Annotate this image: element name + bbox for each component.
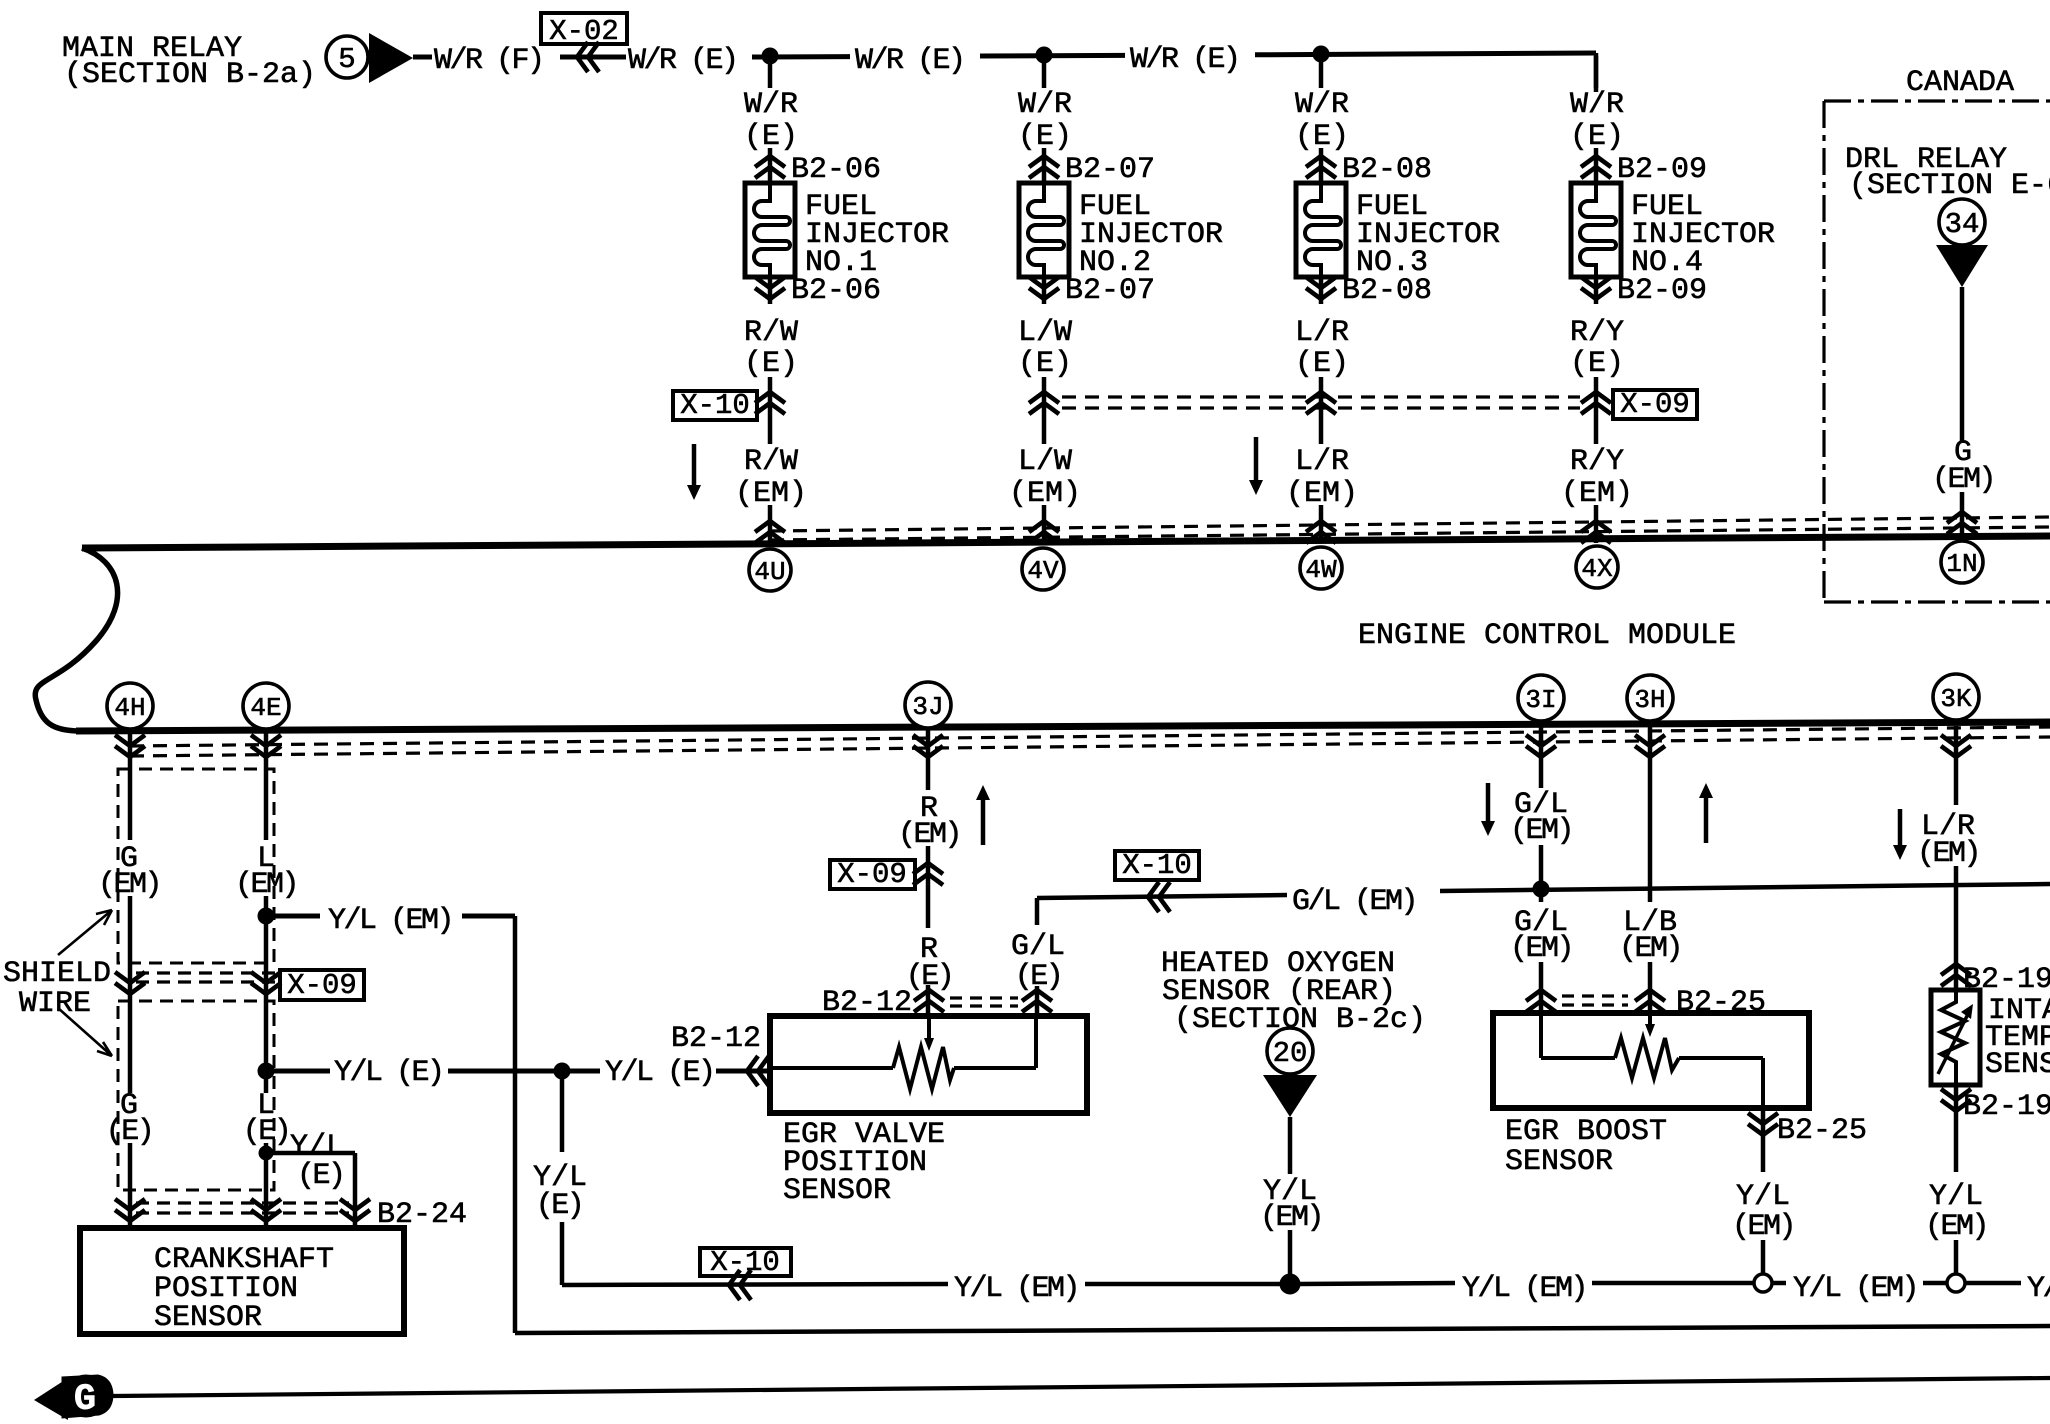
- wire label R/W (E): [744, 316, 798, 381]
- connector circle 34 (to DRL relay): [1939, 199, 1985, 245]
- svg-text:34: 34: [1945, 208, 1980, 241]
- wire Y/L (E) down to X-10: [560, 1071, 565, 1285]
- connector to ECM pin: [1306, 521, 1336, 543]
- svg-text:(EM): (EM): [1732, 1210, 1794, 1244]
- SHIELD WIRE label: [3, 957, 111, 1021]
- svg-text:20: 20: [1273, 1037, 1308, 1070]
- flow arrow down (3K): [1893, 809, 1907, 860]
- splice (EGR boost): [1754, 1274, 1772, 1292]
- svg-text:(EM): (EM): [1561, 477, 1633, 511]
- splice (IAT): [1947, 1274, 1965, 1292]
- svg-text:SENSOR: SENSOR: [1505, 1145, 1613, 1179]
- main relay feed arrow: [369, 33, 413, 83]
- wire label R (EM): [898, 792, 960, 852]
- wire Y/L (EM) from EGR boost: [1761, 1108, 1766, 1274]
- harness dashes B2-12 row: [950, 998, 1018, 1006]
- wire label L/B (EM): [1619, 906, 1681, 966]
- svg-text:L/R: L/R: [1295, 445, 1349, 479]
- svg-text:B2-25: B2-25: [1777, 1114, 1867, 1148]
- ECM pin 1N: [1941, 541, 1983, 583]
- svg-text:(EM): (EM): [1917, 837, 1979, 871]
- connector B2-19 (bottom): [1941, 1089, 2050, 1124]
- svg-text:Y/L: Y/L: [1929, 1180, 1983, 1214]
- svg-text:W/R (E): W/R (E): [855, 44, 964, 78]
- svg-text:(EM): (EM): [1510, 814, 1572, 848]
- svg-text:Y/L (EM): Y/L (EM): [328, 904, 452, 938]
- svg-text:(E): (E): [1570, 120, 1624, 154]
- svg-text:(SECTION E-6): (SECTION E-6): [1849, 169, 2050, 203]
- wire label Y/L (EM): [954, 1272, 1078, 1306]
- connector to ECM pin: [1581, 521, 1611, 543]
- svg-text:W/R: W/R: [1295, 88, 1349, 122]
- svg-text:X-10: X-10: [710, 1246, 780, 1279]
- CANADA boundary box (dash-dot): [1824, 101, 2050, 602]
- svg-text:WIRE: WIRE: [19, 987, 91, 1021]
- connector from ECM pin: [1635, 735, 1665, 757]
- svg-text:L/W: L/W: [1018, 316, 1072, 350]
- connector X row chevron: [755, 392, 785, 414]
- ENGINE CONTROL MODULE label: [1358, 619, 1736, 653]
- svg-text:R/W: R/W: [744, 445, 798, 479]
- wire label Y/L (EM): [1732, 1180, 1794, 1244]
- ECM pin 3J: [905, 682, 951, 728]
- svg-text:B2-19: B2-19: [1963, 1090, 2050, 1124]
- svg-text:CANADA: CANADA: [1906, 66, 2014, 100]
- svg-text:EGR BOOST: EGR BOOST: [1505, 1115, 1667, 1149]
- connector to ECM pin: [755, 521, 785, 543]
- wire label L/R (EM): [1286, 445, 1358, 511]
- wire Y/L (EM) branch: [266, 916, 515, 1333]
- CANADA label: [1906, 66, 2014, 100]
- svg-text:B2-06: B2-06: [791, 274, 881, 308]
- connector B2-07 (bottom): [1029, 274, 1155, 308]
- svg-text:L/R: L/R: [1295, 316, 1349, 350]
- wire G/L (EM) horizontal: [1037, 884, 2050, 898]
- inline connector X-09 (shield row): [280, 969, 364, 1002]
- wire L/W (EM): [1042, 505, 1047, 543]
- label fuel injector no.3: [1356, 190, 1500, 280]
- label EGR valve position sensor: [783, 1118, 945, 1208]
- junction Y/L (E) long branch: [258, 1063, 274, 1079]
- label fuel injector no.4: [1631, 190, 1775, 280]
- svg-text:SENSOR: SENSOR: [1985, 1048, 2050, 1082]
- wire label L/W (EM): [1009, 445, 1081, 511]
- wire label Y/L (EM): [1925, 1180, 1987, 1244]
- svg-text:(E): (E): [297, 1159, 344, 1193]
- inline connector X-10: [673, 389, 757, 422]
- svg-text:R/Y: R/Y: [1570, 316, 1624, 350]
- connector circle 5 (to main relay): [326, 36, 368, 78]
- ECM pin 3I: [1518, 675, 1564, 721]
- svg-text:B2-06: B2-06: [791, 153, 881, 187]
- EGR boost sensor: [1493, 1013, 1809, 1108]
- junction (injector no.2 branch): [1036, 47, 1052, 63]
- harness dashes X-09 row: [136, 973, 280, 982]
- harness dashes above ECM line: [770, 517, 2050, 540]
- svg-text:(EM): (EM): [1619, 932, 1681, 966]
- svg-text:4E: 4E: [250, 693, 281, 723]
- connector B2-25 (bottom): [1748, 1113, 1867, 1148]
- svg-text:4W: 4W: [1305, 555, 1337, 585]
- svg-text:3H: 3H: [1634, 685, 1665, 715]
- connector from ECM pin: [913, 735, 943, 757]
- svg-text:3J: 3J: [912, 692, 943, 722]
- ECM boundary bottom line: [76, 722, 2050, 731]
- flow arrow down (col 3): [1249, 437, 1263, 495]
- svg-text:(E): (E): [1295, 347, 1349, 381]
- connector from ECM pin: [1526, 735, 1556, 757]
- svg-text:R/Y: R/Y: [1570, 445, 1624, 479]
- connector from ECM pin: [115, 735, 145, 757]
- connector B2-24 chevron (L): [251, 1199, 281, 1221]
- wire L/R (EM) 3K column: [1954, 726, 1959, 990]
- svg-text:Y/L (EM): Y/L (EM): [1462, 1272, 1586, 1306]
- svg-text:G/L: G/L: [1011, 930, 1065, 964]
- junction G/L: [1533, 881, 1549, 897]
- junction Y/L (E) crank branch: [259, 1146, 273, 1160]
- wire label G (E): [106, 1089, 153, 1149]
- wire G/L (EM) 3I column: [1539, 727, 1544, 1013]
- wire label W/R (F): [434, 44, 543, 78]
- wire label W/R (E): [628, 44, 737, 78]
- svg-text:(EM): (EM): [735, 477, 807, 511]
- wire Y/L (EM) from HO2S: [1288, 1117, 1293, 1284]
- wire label R/Y (EM): [1561, 445, 1633, 511]
- wire L/R (EM): [1319, 505, 1324, 543]
- fuel injector no.3: [1296, 183, 1346, 277]
- svg-text:(E): (E): [744, 120, 798, 154]
- shield wire dashed box (upper): [118, 769, 274, 963]
- heated oxygen sensor label: [1161, 947, 1426, 1037]
- EGR boost sensor potentiometer: [1541, 1013, 1763, 1108]
- wire label W/R (E): [1570, 88, 1624, 154]
- fuel injector no.2: [1019, 183, 1069, 277]
- svg-text:Y/L: Y/L: [1736, 1180, 1790, 1214]
- wire label Y/L: [2027, 1272, 2050, 1306]
- wire label W/R (E): [855, 44, 964, 78]
- svg-text:W/R (E): W/R (E): [1130, 43, 1239, 77]
- DRL relay label: [1845, 143, 2050, 203]
- connector B2-19 (top): [1941, 963, 2050, 997]
- junction Y/L (EM) branch on L wire: [258, 908, 274, 924]
- svg-text:SENSOR: SENSOR: [783, 1174, 891, 1208]
- ECM pin 4W: [1300, 547, 1342, 589]
- svg-text:Y/L (EM): Y/L (EM): [954, 1272, 1078, 1306]
- inline connector X-09: [1613, 388, 1697, 421]
- connector B2-25 chevron (L/B): [1635, 986, 1766, 1020]
- svg-text:(EM): (EM): [1925, 1210, 1987, 1244]
- svg-text:(EM): (EM): [1260, 1201, 1322, 1235]
- connector B2-06 (bottom): [755, 274, 881, 308]
- svg-text:Y/L (E): Y/L (E): [605, 1056, 714, 1090]
- junction (injector no.1 branch): [762, 48, 778, 64]
- svg-text:B2-09: B2-09: [1617, 274, 1707, 308]
- svg-text:(E): (E): [1015, 960, 1062, 994]
- wire label Y/L (E): [605, 1056, 714, 1090]
- connector chevron G wire X-09: [115, 972, 145, 994]
- wire label L (E): [243, 1089, 290, 1149]
- connector from ECM pin: [1941, 735, 1971, 757]
- inline connector X-10 (G/L): [1115, 849, 1199, 912]
- wire Y/L (EM) from IAT: [1954, 1085, 1959, 1274]
- connector X row chevron: [1581, 392, 1611, 414]
- wire label W/R (E): [1295, 88, 1349, 154]
- ECM pin 4H: [107, 683, 153, 729]
- label EGR boost sensor: [1505, 1115, 1667, 1179]
- svg-text:L/W: L/W: [1018, 445, 1072, 479]
- svg-text:(E): (E): [106, 1115, 153, 1149]
- svg-text:(E): (E): [1570, 347, 1624, 381]
- svg-text:B2-09: B2-09: [1617, 153, 1707, 187]
- ECM pin 4U: [749, 549, 791, 591]
- connector chevron L wire X-09: [251, 972, 281, 994]
- wire R/Y (EM): [1594, 505, 1599, 543]
- wire G (EM): [1960, 287, 1965, 538]
- connector G/L (E) chevron: [1022, 990, 1052, 1012]
- svg-text:R/W: R/W: [744, 316, 798, 350]
- connector to ECM pin 1N: [1947, 512, 1977, 534]
- connector X row chevron: [1306, 392, 1336, 414]
- wire R/W (E): [768, 277, 773, 444]
- flow arrow up (3J): [976, 785, 990, 845]
- harness dashes B2-25 row: [1562, 996, 1628, 1005]
- wire Y/L (E) long branch: [266, 1069, 770, 1074]
- junction Y/L (E) to X-10: [554, 1063, 570, 1079]
- label fuel injector no.2: [1079, 190, 1223, 280]
- svg-text:4U: 4U: [754, 557, 785, 587]
- harness dashes B2-24 row: [136, 1203, 349, 1213]
- inline connector X-10 (bottom): [700, 1246, 791, 1300]
- wire label L/R (E): [1295, 316, 1349, 381]
- wire W/R (E) to injector no.3: [1319, 56, 1324, 183]
- inline connector X-02: [541, 13, 627, 72]
- svg-text:W/R: W/R: [744, 88, 798, 122]
- connector B2-09 (top): [1581, 153, 1707, 187]
- svg-text:G/L (EM): G/L (EM): [1292, 885, 1416, 919]
- wire L (E): [264, 1143, 269, 1228]
- wire label Y/L (E) vertical: [533, 1161, 587, 1223]
- wire R (EM): [926, 728, 931, 790]
- ground G: [34, 1375, 113, 1421]
- harness dashes below ECM line: [130, 727, 2050, 756]
- svg-text:B2-07: B2-07: [1065, 274, 1155, 308]
- svg-text:(E): (E): [1018, 347, 1072, 381]
- wire W/R (E) to injector no.4: [1594, 56, 1599, 183]
- connector circle 20 (to HO2S): [1267, 1028, 1313, 1074]
- wire G/L (E): [1035, 898, 1040, 1016]
- shield pointer arrow (lower): [58, 1008, 112, 1056]
- svg-text:3K: 3K: [1940, 684, 1972, 714]
- svg-text:SHIELD: SHIELD: [3, 957, 111, 991]
- wire label Y/L (EM): [1260, 1175, 1322, 1235]
- wire W/R (E) to injector no.2: [1042, 56, 1047, 183]
- DRL relay feed arrow: [1936, 245, 1988, 287]
- svg-text:B2-08: B2-08: [1342, 274, 1432, 308]
- wire Y/L (EM) continuation: [515, 1326, 2050, 1333]
- wire W/R (E) to injector no.1: [768, 56, 773, 183]
- wire label R/W (EM): [735, 445, 807, 511]
- svg-text:4V: 4V: [1027, 556, 1059, 586]
- wire label L/R (EM): [1917, 810, 1979, 871]
- wire R/W (EM): [768, 505, 773, 543]
- wire label W/R (E): [744, 88, 798, 154]
- wire label Y/L (EM): [1793, 1272, 1917, 1306]
- svg-text:(SECTION B-2a): (SECTION B-2a): [64, 58, 316, 92]
- main relay label: [62, 32, 316, 92]
- wire R/Y (E): [1594, 277, 1599, 444]
- HO2S feed arrow: [1263, 1075, 1317, 1117]
- ground wire: [112, 1378, 2050, 1396]
- ECM pin 4E: [243, 683, 289, 729]
- connector B2-06 (top): [755, 153, 881, 187]
- svg-text:G: G: [74, 1379, 96, 1421]
- ECM pin 4X: [1576, 546, 1618, 588]
- wire Y/L (E) crank branch: [266, 1153, 355, 1228]
- ECM boundary top line: [82, 536, 2050, 548]
- fuel injector no.1: [745, 183, 795, 277]
- svg-text:Y/L (EM): Y/L (EM): [1793, 1272, 1917, 1306]
- ECM boundary continuation S-curve: [35, 548, 117, 731]
- svg-text:B2-12: B2-12: [671, 1022, 761, 1056]
- ECM pin 4V: [1022, 548, 1064, 590]
- svg-text:W/R (F): W/R (F): [434, 44, 543, 78]
- wire label Y/L (EM): [1462, 1272, 1586, 1306]
- wire label G/L (EM) lower: [1510, 906, 1572, 966]
- svg-text:Y/L (E): Y/L (E): [334, 1056, 443, 1090]
- svg-text:(EM): (EM): [1009, 477, 1081, 511]
- fuel injector no.4: [1571, 183, 1621, 277]
- wire G (EM) shield column: [128, 728, 133, 1093]
- svg-text:(EM): (EM): [235, 868, 297, 902]
- crankshaft position sensor: [80, 1228, 404, 1334]
- wire W/R (F): [413, 55, 626, 60]
- label crankshaft position sensor: [154, 1243, 334, 1335]
- flow arrow down (col 1): [687, 444, 701, 500]
- wire label G/L (EM): [1292, 885, 1416, 919]
- connector X row chevron: [1029, 392, 1059, 414]
- wire label W/R (E): [1018, 88, 1072, 154]
- connector B2-24 chevron (G): [115, 1199, 145, 1221]
- svg-text:X-09: X-09: [1620, 388, 1690, 421]
- connector to ECM pin: [1029, 521, 1059, 543]
- svg-text:W/R: W/R: [1570, 88, 1624, 122]
- connector B2-08 (bottom): [1306, 274, 1432, 308]
- connector B2-08 (top): [1306, 153, 1432, 187]
- svg-text:X-10: X-10: [680, 389, 750, 422]
- wire label Y/L (EM): [328, 904, 452, 938]
- shield pointer arrow (upper): [58, 910, 112, 955]
- svg-text:(EM): (EM): [1286, 477, 1358, 511]
- wire label Y/L (E): [334, 1056, 443, 1090]
- connector B2-12 (wiper): [822, 986, 944, 1020]
- svg-text:Y/L (EM): Y/L (EM): [2027, 1272, 2050, 1306]
- label fuel injector no.1: [805, 190, 949, 280]
- junction Y/L (EM) HO2S: [1280, 1274, 1300, 1294]
- wire G (E): [128, 1143, 133, 1228]
- connector from ECM pin: [251, 735, 281, 757]
- wire label L (EM): [235, 842, 297, 902]
- svg-text:B2-08: B2-08: [1342, 153, 1432, 187]
- wire label R/Y (E): [1570, 316, 1624, 381]
- svg-text:X-09: X-09: [837, 858, 907, 891]
- svg-text:X-02: X-02: [549, 15, 619, 48]
- svg-text:4X: 4X: [1581, 554, 1613, 584]
- svg-text:W/R: W/R: [1018, 88, 1072, 122]
- ECM pin 3K: [1933, 674, 1979, 720]
- connector B2-12 (left): [671, 1022, 769, 1086]
- ECM pin 3H: [1627, 675, 1673, 721]
- svg-text:(EM): (EM): [98, 868, 160, 902]
- wire L (EM) shield column: [264, 728, 269, 1093]
- svg-text:B2-07: B2-07: [1065, 153, 1155, 187]
- wire R (E): [926, 846, 931, 1016]
- svg-text:(E): (E): [744, 347, 798, 381]
- EGR valve position sensor: [770, 1016, 1087, 1113]
- svg-text:(E): (E): [1295, 120, 1349, 154]
- intake air temperature sensor thermistor: [1938, 990, 1973, 1085]
- wire W/R (E) bus: [752, 53, 1596, 92]
- connector B2-24 chevron (Y/L): [340, 1198, 467, 1232]
- wire L/W (E): [1042, 277, 1047, 444]
- svg-text:X-09: X-09: [287, 969, 357, 1002]
- svg-text:W/R (E): W/R (E): [628, 44, 737, 78]
- inline connector X-09 (3J): [830, 858, 943, 891]
- svg-text:(EM): (EM): [1510, 932, 1572, 966]
- svg-text:(E): (E): [536, 1189, 583, 1223]
- svg-text:1N: 1N: [1946, 549, 1977, 579]
- EGR valve position sensor potentiometer: [770, 1016, 1036, 1089]
- wire Y/L (EM) rail: [562, 1283, 2021, 1285]
- wire label G/L (EM): [1510, 788, 1572, 848]
- wire label G/L (E): [1011, 930, 1065, 994]
- wire label G (EM): [98, 842, 160, 902]
- svg-text:5: 5: [338, 43, 355, 76]
- connector B2-07 (top): [1029, 153, 1155, 187]
- svg-text:4H: 4H: [114, 693, 145, 723]
- wire label R (E): [906, 933, 953, 994]
- flow arrow down (3I): [1481, 783, 1495, 836]
- svg-text:(E): (E): [243, 1115, 290, 1149]
- wire label W/R (E): [1130, 43, 1239, 77]
- junction (injector no.3 branch): [1313, 46, 1329, 62]
- flow arrow up (3H): [1699, 783, 1713, 843]
- wire label L/W (E): [1018, 316, 1072, 381]
- connector B2-25 chevron (G/L): [1526, 990, 1556, 1012]
- svg-text:X-10: X-10: [1122, 849, 1192, 882]
- svg-text:(E): (E): [1018, 120, 1072, 154]
- label intake air temperature sensor: [1985, 994, 2050, 1082]
- wire label Y/L (E): [290, 1130, 344, 1193]
- shield wire dashed box (lower): [118, 1001, 274, 1190]
- svg-text:(EM): (EM): [1932, 463, 1994, 497]
- wire L/B (EM) 3H column: [1648, 727, 1653, 1013]
- svg-text:3I: 3I: [1525, 685, 1556, 715]
- wire label G (EM): [1932, 436, 1994, 497]
- svg-text:ENGINE CONTROL MODULE: ENGINE CONTROL MODULE: [1358, 619, 1736, 653]
- harness dashes (X row): [1062, 397, 1580, 408]
- connector B2-09 (bottom): [1581, 274, 1707, 308]
- svg-text:SENSOR: SENSOR: [154, 1301, 262, 1335]
- intake air temperature sensor: [1931, 990, 1980, 1085]
- wire L/R (E): [1319, 277, 1324, 444]
